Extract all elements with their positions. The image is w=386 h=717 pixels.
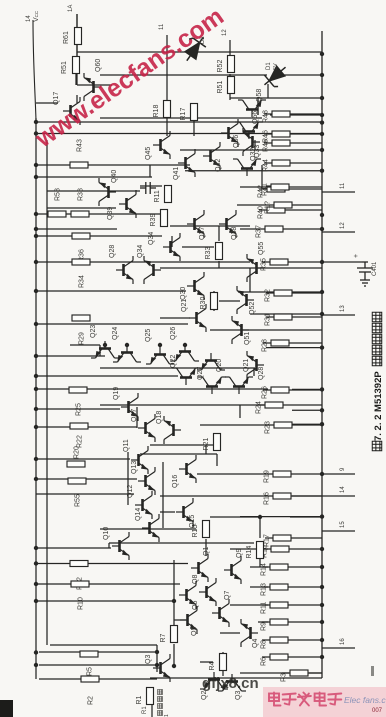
svg-text:R2: R2 <box>88 696 95 705</box>
svg-text:R1: R1 <box>142 706 148 714</box>
svg-text:gfjx8.cn: gfjx8.cn <box>202 675 259 692</box>
svg-text:R4: R4 <box>209 661 216 670</box>
svg-text:R10: R10 <box>78 597 85 610</box>
svg-text:7. 2. 2 M51392P: 7. 2. 2 M51392P <box>373 371 384 441</box>
svg-text:R58: R58 <box>55 188 62 201</box>
svg-text:Q40: Q40 <box>111 170 118 183</box>
svg-text:Q14: Q14 <box>135 508 142 521</box>
svg-text:Q60: Q60 <box>95 59 102 72</box>
svg-text:R7: R7 <box>160 633 167 642</box>
svg-text:Q24: Q24 <box>112 327 119 340</box>
svg-text:Q56: Q56 <box>252 111 259 124</box>
svg-text:VCC: VCC <box>33 10 40 22</box>
svg-text:Q28: Q28 <box>109 245 116 258</box>
svg-text:Q21: Q21 <box>181 299 188 312</box>
svg-text:R35: R35 <box>261 258 268 271</box>
svg-text:R34: R34 <box>79 275 86 288</box>
svg-text:5V: 5V <box>273 63 279 70</box>
svg-text:R22: R22 <box>77 435 84 448</box>
svg-text:R16: R16 <box>264 492 271 505</box>
svg-text:Q37: Q37 <box>199 227 206 240</box>
svg-text:R38: R38 <box>78 188 85 201</box>
svg-text:+: + <box>353 254 360 258</box>
svg-text:R19: R19 <box>264 470 271 483</box>
svg-text:R17: R17 <box>180 108 187 121</box>
svg-text:R29: R29 <box>79 332 86 345</box>
svg-text:R24: R24 <box>256 401 263 414</box>
svg-text:R9: R9 <box>261 622 268 631</box>
svg-text:13: 13 <box>340 305 346 312</box>
svg-text:15: 15 <box>340 521 346 528</box>
svg-text:R33: R33 <box>205 247 212 260</box>
svg-text:R18: R18 <box>153 105 160 118</box>
svg-text:Q34: Q34 <box>137 245 144 258</box>
svg-text:Q21: Q21 <box>243 359 250 372</box>
svg-text:R21: R21 <box>203 438 210 451</box>
svg-text:11: 11 <box>159 23 165 30</box>
svg-text:Q28: Q28 <box>258 367 265 380</box>
svg-text:14: 14 <box>340 486 346 493</box>
svg-text:Q13: Q13 <box>131 461 138 474</box>
svg-text:Q12: Q12 <box>127 485 134 498</box>
svg-text:Q39: Q39 <box>107 207 114 220</box>
svg-text:Q16: Q16 <box>172 475 179 488</box>
svg-text:R11: R11 <box>154 190 161 202</box>
svg-text:Q32: Q32 <box>250 148 257 161</box>
svg-text:R5: R5 <box>87 667 94 676</box>
svg-text:Q20: Q20 <box>216 359 223 372</box>
svg-text:Q4: Q4 <box>252 639 259 648</box>
svg-text:Q55: Q55 <box>258 242 265 255</box>
svg-text:R32: R32 <box>265 289 272 302</box>
svg-text:R3: R3 <box>281 673 288 682</box>
svg-text:R44: R44 <box>263 159 270 172</box>
svg-text:R28: R28 <box>262 339 269 352</box>
svg-text:R14: R14 <box>261 563 268 576</box>
svg-text:R48: R48 <box>263 110 270 123</box>
svg-text:Q19: Q19 <box>113 387 120 400</box>
svg-text:14: 14 <box>26 15 32 22</box>
svg-text:Q38: Q38 <box>231 227 238 240</box>
svg-text:Q15: Q15 <box>189 515 196 528</box>
svg-text:12: 12 <box>340 222 346 229</box>
svg-text:R52: R52 <box>217 60 224 73</box>
svg-text:12: 12 <box>222 29 228 36</box>
svg-text:Q36: Q36 <box>233 135 240 148</box>
svg-text:Elec fans.com: Elec fans.com <box>344 695 386 705</box>
svg-text:R11: R11 <box>261 602 268 614</box>
svg-text:R55: R55 <box>75 494 82 507</box>
svg-text:Q17: Q17 <box>53 92 60 105</box>
svg-text:R8: R8 <box>261 640 268 649</box>
svg-text:R20: R20 <box>74 446 81 459</box>
svg-text:Q11: Q11 <box>123 439 130 452</box>
svg-text:R25: R25 <box>76 403 83 416</box>
svg-text:R14: R14 <box>246 546 253 559</box>
svg-text:Q45: Q45 <box>145 147 152 160</box>
svg-text:Q42: Q42 <box>215 159 222 172</box>
svg-text:Q51: Q51 <box>244 332 251 345</box>
svg-text:R61: R61 <box>63 31 70 44</box>
svg-text:R31: R31 <box>265 313 272 326</box>
svg-text:R17: R17 <box>264 534 271 547</box>
svg-text:007: 007 <box>372 708 383 714</box>
svg-text:Q58: Q58 <box>256 89 263 102</box>
svg-text:R37: R37 <box>256 225 263 238</box>
svg-text:Q18: Q18 <box>156 411 163 424</box>
svg-text:R1: R1 <box>136 695 143 704</box>
svg-text:Q9: Q9 <box>236 549 243 558</box>
svg-text:Q41: Q41 <box>173 167 180 180</box>
svg-text:R51: R51 <box>217 81 224 94</box>
svg-text:R41: R41 <box>262 183 269 196</box>
svg-text:11: 11 <box>340 182 346 189</box>
svg-text:Q22: Q22 <box>170 355 177 368</box>
svg-text:R43: R43 <box>77 139 84 152</box>
svg-text:R51: R51 <box>61 61 68 74</box>
svg-text:D1: D1 <box>266 62 272 70</box>
svg-text:C401: C401 <box>372 261 378 276</box>
svg-text:Q6: Q6 <box>192 601 199 610</box>
svg-text:Q26: Q26 <box>170 327 177 340</box>
svg-text:Q1: Q1 <box>203 547 210 556</box>
svg-text:R23: R23 <box>265 421 272 434</box>
svg-text:Q23: Q23 <box>90 325 97 338</box>
svg-text:R26: R26 <box>262 386 269 399</box>
svg-text:16: 16 <box>340 638 346 645</box>
svg-text:R13: R13 <box>261 583 268 596</box>
svg-text:R40: R40 <box>258 206 265 219</box>
svg-text:Q5: Q5 <box>191 627 198 636</box>
svg-text:1A: 1A <box>68 5 74 12</box>
svg-text:R45: R45 <box>263 139 270 152</box>
svg-text:R6: R6 <box>261 657 268 666</box>
svg-text:Q3: Q3 <box>145 655 152 664</box>
svg-text:Q52: Q52 <box>249 302 256 315</box>
svg-text:Q17: Q17 <box>131 409 138 422</box>
svg-text:R1?: R1? <box>265 201 272 214</box>
svg-text:Q7: Q7 <box>224 591 231 600</box>
svg-text:Q10: Q10 <box>103 527 110 540</box>
svg-text:R39: R39 <box>150 214 157 227</box>
svg-text:Q30: Q30 <box>180 287 187 300</box>
svg-text:Q25: Q25 <box>145 329 152 342</box>
svg-text:Q34: Q34 <box>148 232 155 245</box>
